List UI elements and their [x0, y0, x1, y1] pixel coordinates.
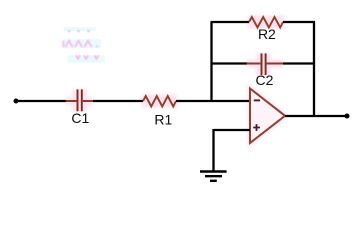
wire feedback right vertical	[313, 21, 315, 116]
capacitor C1	[66, 89, 94, 111]
op-amp non-inverting pin mark	[253, 124, 260, 131]
capacitor C2	[247, 53, 284, 75]
svg-text:C1: C1	[71, 110, 89, 126]
wire C2 branch left	[212, 62, 248, 64]
svg-text:R2: R2	[258, 26, 276, 42]
pink selection glows	[67, 22, 285, 143]
glow op-amp	[250, 89, 285, 144]
op-amp inverting pin mark	[254, 99, 260, 101]
wire non-inverting input horizontal	[214, 129, 251, 131]
ground	[200, 172, 227, 181]
resistor R1	[143, 96, 176, 107]
op-amp U1	[250, 89, 285, 144]
wire feedback left vertical	[210, 22, 212, 101]
glow C2	[247, 53, 283, 76]
wire ground vertical	[212, 129, 214, 171]
wire C1 to R1	[93, 100, 143, 102]
wire input left segment	[16, 100, 67, 102]
input terminal dot	[14, 99, 19, 104]
wire output	[285, 115, 347, 117]
output terminal dot	[345, 114, 350, 119]
resistor R2	[249, 17, 283, 28]
glow R1	[142, 95, 177, 108]
glow R2	[248, 16, 284, 29]
svg-text:R1: R1	[154, 111, 172, 127]
wire top left to R2	[211, 21, 250, 23]
wire R1 to op-amp inverting input	[176, 100, 250, 102]
svg-text:C2: C2	[256, 72, 274, 88]
glow C1	[67, 89, 93, 112]
faded watermark artifact (ghost rows: dots, carets, vees)	[62, 27, 105, 63]
wire C2 branch right	[283, 62, 314, 64]
wire R2 to top right corner	[283, 21, 315, 23]
